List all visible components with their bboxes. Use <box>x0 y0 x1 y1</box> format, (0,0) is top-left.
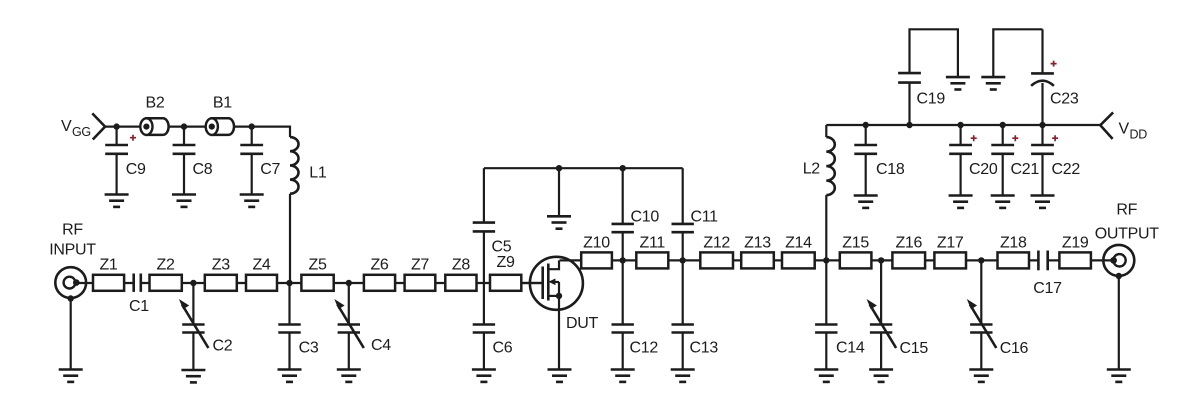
svg-text:B2: B2 <box>146 95 165 112</box>
svg-text:Z5: Z5 <box>309 257 327 274</box>
node L1/C3 <box>286 280 292 286</box>
inductor L2 <box>803 125 835 260</box>
transistor DUT MOSFET <box>521 257 598 370</box>
svg-text:L1: L1 <box>309 165 327 182</box>
capacitor C1 <box>129 274 149 316</box>
ground <box>59 370 83 382</box>
resistor Z17 <box>934 235 966 269</box>
svg-text:DD: DD <box>1130 128 1148 142</box>
svg-text:C1: C1 <box>129 298 149 315</box>
svg-text:C5: C5 <box>492 239 512 256</box>
svg-text:C4: C4 <box>371 337 391 354</box>
svg-text:Z8: Z8 <box>452 257 470 274</box>
resistor Z15 <box>840 235 872 269</box>
wire VDD rail <box>826 124 1100 126</box>
capacitor C12 <box>612 260 659 369</box>
node Z11-Z12 <box>680 257 686 263</box>
ground <box>981 77 1005 89</box>
svg-text:OUTPUT: OUTPUT <box>1095 226 1160 243</box>
capacitor C18 <box>854 125 905 196</box>
wire VGG rail <box>105 125 290 127</box>
capacitor C19 <box>898 29 958 125</box>
node rail ground <box>556 165 562 171</box>
svg-text:C2: C2 <box>213 338 233 355</box>
node C9 <box>113 123 119 129</box>
capacitor C2 variable <box>179 283 233 370</box>
svg-text:C19: C19 <box>917 91 946 108</box>
svg-text:C3: C3 <box>299 340 319 357</box>
capacitor C5 <box>473 168 512 283</box>
node rail C10 <box>620 165 626 171</box>
svg-text:Z10: Z10 <box>583 235 610 252</box>
ground <box>181 370 205 382</box>
svg-text:C15: C15 <box>900 340 929 357</box>
svg-text:DUT: DUT <box>566 315 599 332</box>
svg-text:Z14: Z14 <box>785 235 812 252</box>
svg-text:Z6: Z6 <box>370 257 388 274</box>
node Z2-Z3 <box>190 280 196 286</box>
inductor L1 <box>290 126 327 284</box>
ground <box>1107 370 1131 382</box>
ground <box>1031 196 1055 208</box>
svg-text:C17: C17 <box>1033 280 1062 297</box>
svg-text:C21: C21 <box>1011 161 1040 178</box>
node Z15-Z16 <box>878 257 884 263</box>
svg-text:C20: C20 <box>969 161 998 178</box>
ground <box>337 370 361 382</box>
capacitor C10 <box>612 168 660 260</box>
node VGG label <box>61 118 91 139</box>
ferrite bead B1 <box>206 95 234 135</box>
ground <box>240 195 264 207</box>
resistor Z3 <box>205 257 237 291</box>
ground <box>278 370 302 382</box>
resistor Z7 <box>405 257 436 291</box>
ground <box>548 370 572 382</box>
svg-text:C10: C10 <box>631 209 660 226</box>
svg-text:Z15: Z15 <box>842 235 869 252</box>
capacitor C6 <box>473 283 513 370</box>
node C18 <box>863 122 869 128</box>
VGG supply arrow <box>92 113 105 139</box>
svg-text:Z7: Z7 <box>411 257 429 274</box>
capacitor C4 variable <box>334 283 391 370</box>
svg-text:Z13: Z13 <box>744 235 771 252</box>
node VDD label <box>1119 121 1148 142</box>
capacitor C14 <box>815 260 865 369</box>
VDD supply arrow <box>1100 112 1113 138</box>
wire main output line <box>560 259 1114 261</box>
resistor Z18 <box>998 235 1030 269</box>
capacitor C9 <box>105 127 146 195</box>
capacitor C23 <box>993 29 1079 125</box>
capacitor C11 <box>672 168 719 260</box>
ferrite bead B2 <box>140 95 168 135</box>
svg-text:C18: C18 <box>876 161 905 178</box>
connector RF INPUT <box>49 222 96 370</box>
ground <box>814 370 838 382</box>
svg-text:C11: C11 <box>691 209 719 226</box>
connector RF OUTPUT <box>1095 202 1160 370</box>
ground <box>869 370 893 382</box>
svg-text:Z12: Z12 <box>703 235 730 252</box>
capacitor C16 variable <box>967 260 1029 369</box>
capacitor C3 <box>278 283 319 370</box>
svg-text:Z17: Z17 <box>937 235 964 252</box>
svg-text:GG: GG <box>72 125 91 139</box>
node B2-B1 <box>181 123 187 129</box>
node Z5-Z6 <box>346 280 352 286</box>
svg-text:RF: RF <box>62 222 83 239</box>
svg-text:Z19: Z19 <box>1062 235 1089 252</box>
svg-text:RF: RF <box>1116 202 1137 219</box>
svg-text:Z18: Z18 <box>1000 235 1027 252</box>
resistor Z10 <box>581 235 612 269</box>
capacitor C20 <box>949 125 998 196</box>
node Z14-Z15 L2/C14 <box>823 257 829 263</box>
node C22/C23 <box>1039 122 1045 128</box>
capacitor C21 <box>991 125 1039 196</box>
node Z17-Z18 <box>978 257 984 263</box>
resistor Z14 <box>782 235 815 269</box>
ground <box>671 370 695 382</box>
svg-text:C23: C23 <box>1050 91 1079 108</box>
svg-text:Z2: Z2 <box>157 257 175 274</box>
svg-text:C22: C22 <box>1052 161 1081 178</box>
resistor Z8 <box>445 257 476 291</box>
resistor Z16 <box>892 235 925 269</box>
svg-text:C12: C12 <box>630 340 659 357</box>
node C19 <box>906 122 912 128</box>
ground <box>172 195 196 207</box>
node C20 <box>957 122 963 128</box>
node Z10-Z11 <box>620 257 626 263</box>
svg-text:Z16: Z16 <box>895 235 922 252</box>
capacitor C13 <box>672 260 719 369</box>
ground <box>472 370 496 382</box>
wire rail ground stem <box>558 168 560 216</box>
svg-text:C9: C9 <box>126 161 146 178</box>
svg-text:INPUT: INPUT <box>49 242 96 259</box>
svg-text:C7: C7 <box>260 161 280 178</box>
resistor Z1 <box>93 257 124 291</box>
ground <box>991 196 1015 208</box>
resistor Z19 <box>1059 235 1091 269</box>
resistor Z13 <box>741 235 774 269</box>
ground <box>854 196 878 208</box>
svg-text:Z9: Z9 <box>497 254 515 271</box>
svg-text:Z3: Z3 <box>212 257 230 274</box>
capacitor C7 <box>240 127 280 195</box>
node C21 <box>1000 122 1006 128</box>
svg-text:L2: L2 <box>803 161 821 178</box>
ground <box>105 195 129 207</box>
svg-text:C16: C16 <box>1000 340 1029 357</box>
svg-text:V: V <box>1119 121 1130 138</box>
svg-text:C6: C6 <box>493 340 513 357</box>
svg-text:B1: B1 <box>213 95 232 112</box>
svg-text:C14: C14 <box>836 340 865 357</box>
svg-text:Z1: Z1 <box>99 257 117 274</box>
wire top rail <box>484 167 683 169</box>
ground <box>547 216 571 228</box>
resistor Z11 <box>636 235 668 269</box>
svg-text:V: V <box>61 118 72 135</box>
svg-text:C8: C8 <box>193 161 213 178</box>
wire main input line <box>76 282 542 284</box>
node B1-C7 <box>249 123 255 129</box>
resistor Z9 <box>490 254 521 291</box>
svg-text:C13: C13 <box>690 340 719 357</box>
resistor Z4 <box>246 257 277 291</box>
ground <box>946 77 970 89</box>
capacitor C17 <box>1033 251 1062 298</box>
svg-text:Z4: Z4 <box>252 257 270 274</box>
resistor Z12 <box>700 235 733 269</box>
svg-text:Z11: Z11 <box>640 235 666 252</box>
capacitor C8 <box>173 127 213 195</box>
resistor Z5 <box>301 257 333 291</box>
resistor Z6 <box>364 257 395 291</box>
ground <box>949 196 973 208</box>
ground <box>611 370 635 382</box>
capacitor C15 variable <box>867 260 929 369</box>
capacitor C22 <box>1031 125 1080 196</box>
resistor Z2 <box>150 257 182 291</box>
ground <box>969 370 993 382</box>
